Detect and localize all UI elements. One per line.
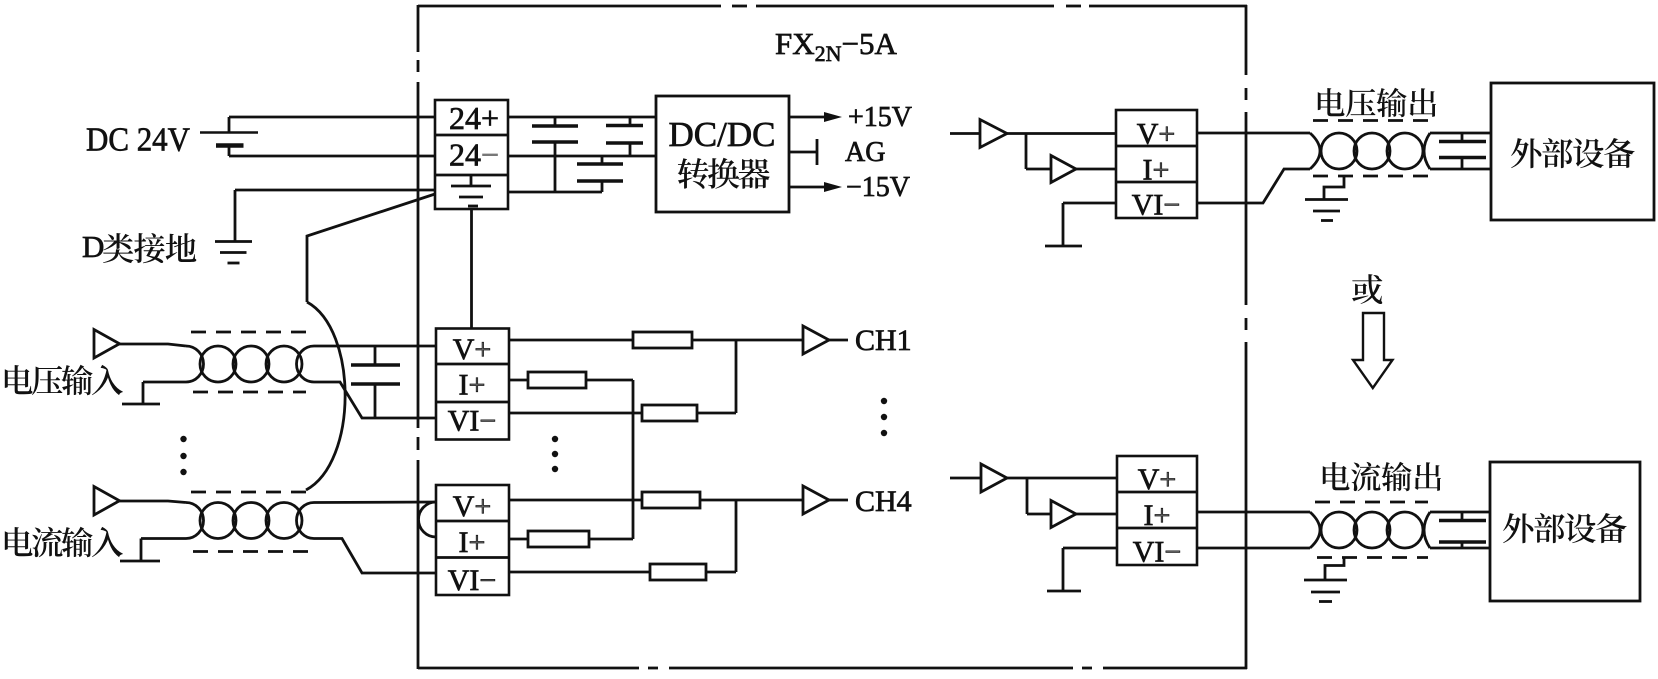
- svg-text:V+: V+: [1137, 118, 1176, 151]
- svg-text:I+: I+: [1143, 154, 1170, 187]
- svg-text:CH1: CH1: [855, 324, 912, 357]
- svg-text:AG: AG: [845, 137, 885, 168]
- svg-text:V+: V+: [453, 333, 492, 366]
- svg-text:24−: 24−: [449, 137, 499, 173]
- svg-text:24+: 24+: [449, 100, 499, 136]
- svg-text:−15V: −15V: [846, 172, 910, 203]
- svg-text:DC/DC: DC/DC: [669, 115, 776, 154]
- svg-text:CH4: CH4: [855, 485, 912, 518]
- svg-text:I+: I+: [459, 526, 486, 559]
- svg-text:DC 24V: DC 24V: [86, 122, 190, 159]
- svg-text:VI−: VI−: [1132, 189, 1181, 222]
- svg-text:D: D: [82, 229, 104, 264]
- svg-text:+15V: +15V: [848, 102, 912, 133]
- svg-text:I+: I+: [459, 369, 486, 402]
- svg-text:V+: V+: [1138, 463, 1177, 496]
- svg-text:I+: I+: [1144, 499, 1171, 532]
- svg-text:VI−: VI−: [1133, 536, 1182, 569]
- svg-text:VI−: VI−: [448, 405, 497, 438]
- svg-text:VI−: VI−: [448, 564, 497, 597]
- svg-text:V+: V+: [453, 490, 492, 523]
